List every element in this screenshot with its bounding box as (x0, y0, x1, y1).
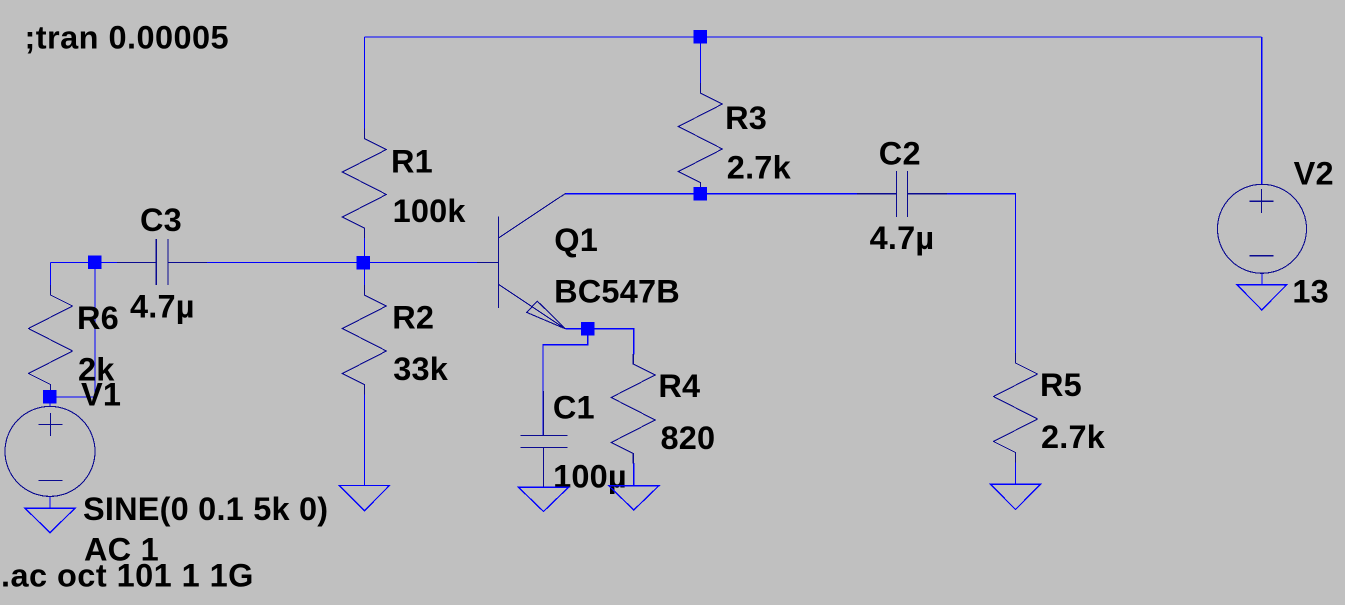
svg-text:SINE(0 0.1 5k 0): SINE(0 0.1 5k 0) (83, 491, 328, 527)
svg-text:Q1: Q1 (554, 222, 598, 258)
wire R6 top drop (50, 263, 52, 286)
wire V1 bottom stub to ground (49, 496, 51, 508)
resistor R5 (994, 353, 1038, 463)
wire top rail (364, 36, 1261, 38)
svg-text:2.7k: 2.7k (1041, 419, 1106, 455)
wire R1 to R2 (base divider node) (363, 238, 365, 286)
capacitor C2 (857, 171, 947, 217)
transistor Q1 (NPN) (477, 193, 566, 328)
wire emitter node to C1 top (543, 329, 588, 436)
svg-text:R6: R6 (77, 300, 119, 336)
svg-text:33k: 33k (393, 351, 449, 387)
svg-text:2.7k: 2.7k (727, 150, 792, 186)
svg-text:R5: R5 (1040, 367, 1082, 403)
svg-text:R1: R1 (391, 144, 433, 180)
svg-text:C3: C3 (140, 202, 182, 238)
ground V2 (1237, 285, 1287, 310)
capacitor C3 (117, 239, 207, 285)
wire C2 right plate to R5 top (907, 194, 1015, 354)
resistor R6 (29, 285, 73, 395)
junction emitter node (581, 322, 595, 336)
wire C3 right plate to Q1 base (168, 262, 478, 264)
wire R2 to ground (363, 394, 365, 486)
svg-text:V2: V2 (1294, 156, 1334, 192)
svg-text:R2: R2 (392, 300, 434, 336)
junction R3 bottom / collector node (694, 187, 708, 201)
ground R2 (339, 486, 389, 511)
voltage source V1 (5, 406, 95, 496)
ground V1 (25, 508, 75, 533)
wire V2 top drop (1261, 37, 1263, 185)
resistor R2 (342, 285, 386, 395)
svg-text:R3: R3 (725, 100, 767, 136)
wire emitter to node (565, 328, 587, 330)
wire R3 top drop (699, 37, 701, 84)
svg-text:100µ: 100µ (553, 458, 627, 494)
capacitor C1 (521, 391, 568, 487)
resistor R4 (611, 354, 655, 464)
ground C1 (519, 487, 569, 511)
junction top rail / R3 (694, 30, 708, 44)
ground R5 (991, 484, 1041, 509)
voltage source V2 (1218, 184, 1307, 273)
svg-text:100k: 100k (393, 193, 467, 229)
svg-text:4.7µ: 4.7µ (130, 289, 195, 325)
svg-text:BC547B: BC547B (554, 274, 680, 310)
svg-text:820: 820 (661, 420, 716, 456)
svg-text:C2: C2 (879, 136, 921, 172)
junction input node at C3 (88, 256, 102, 270)
wire R4 bottom to ground (633, 463, 635, 486)
wire R5 bottom to ground (1015, 462, 1017, 484)
svg-text:13: 13 (1292, 274, 1329, 310)
resistor R3 (678, 83, 722, 193)
svg-text:V1: V1 (81, 377, 121, 413)
ground R4 (609, 486, 659, 510)
resistor R1 (342, 129, 386, 239)
wire V1 top stub (49, 397, 51, 407)
wire input node to C3 left plate (51, 262, 157, 264)
wire collector run to C2 left plate (566, 193, 897, 195)
wire C3 junction down to V1 node (50, 263, 95, 398)
svg-text:;tran 0.00005: ;tran 0.00005 (25, 19, 230, 55)
svg-text:.ac oct 101 1 1G: .ac oct 101 1 1G (1, 557, 254, 593)
wire emitter node to R4 top (588, 329, 634, 355)
wire R6 bottom to V1 node (50, 394, 52, 397)
wire V2 bottom stub to ground (1261, 273, 1263, 285)
junction base divider node (357, 256, 371, 270)
svg-text:C1: C1 (553, 390, 595, 426)
junction V1 node (43, 390, 57, 404)
svg-text:R4: R4 (658, 368, 700, 404)
wire R1 top drop (363, 37, 365, 129)
svg-text:4.7µ: 4.7µ (870, 220, 935, 256)
